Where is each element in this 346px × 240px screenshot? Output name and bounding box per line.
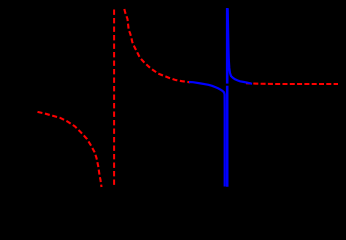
red horizontal dashed (right of blue pole)	[246, 82, 338, 85]
red curve right branch	[124, 9, 190, 82]
red vertical asymptote	[113, 10, 115, 188]
blue vertical asymptote	[226, 8, 229, 187]
red curve left branch	[38, 112, 102, 187]
blue curve left branch	[189, 82, 225, 187]
blue curve right branch	[228, 9, 252, 84]
black notch where x-axis crosses blue asymptote	[226, 84, 229, 86]
